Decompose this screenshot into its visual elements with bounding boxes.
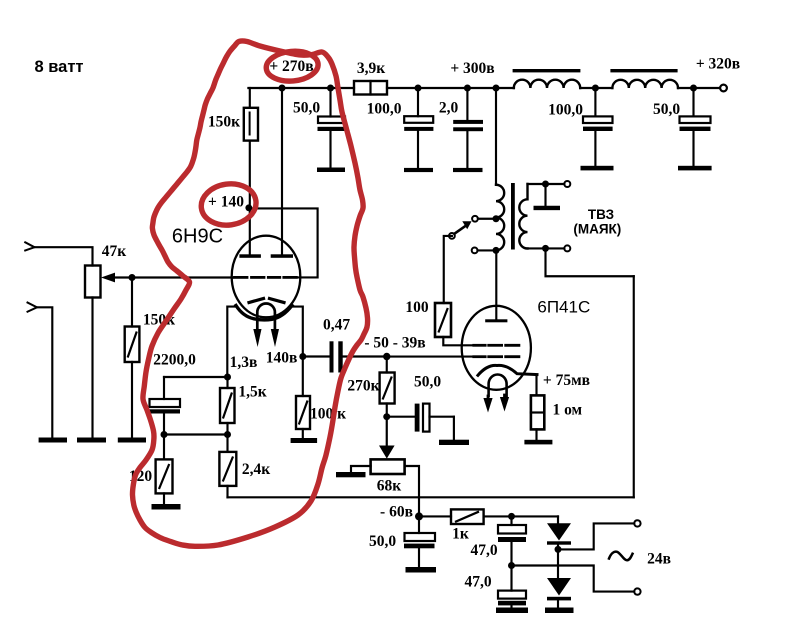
svg-text:1,3в: 1,3в [230,354,258,371]
ground bar C8 [439,440,469,445]
g1 dashes of V2 [474,355,519,358]
resistor R4 150к grid leak [125,278,140,438]
ground bar for C2 [404,168,433,172]
resistor R12 1к [451,509,484,524]
switch common terminal circle [449,233,455,239]
ground bar R7 [152,504,181,510]
wire input2 to ground [37,307,52,437]
wire lower circle to primary bottom [478,249,497,251]
capacitor C7 0,47 [330,341,343,372]
cathode arch of V2 [478,365,537,375]
g2 dashes of V2 [474,344,519,347]
resistor R7 120 [156,435,173,505]
node dot bus at C4 [592,85,599,92]
svg-text:150к: 150к [208,114,240,131]
wire feedback top from secondary [546,248,634,276]
wire cathode1 of V1 down [227,307,236,377]
svg-text:6Н9С: 6Н9С [172,226,223,248]
heater hump of V1 [257,303,275,328]
wire D1 to D2 [557,549,559,578]
svg-text:140в: 140в [266,350,298,367]
svg-text:270к: 270к [347,378,379,395]
wire coupling from +140 node to grid of second triode [249,208,318,277]
capacitor C10 47,0 [498,566,526,608]
capacitor C3 2,0 [453,88,483,168]
terminal circle secondary bottom [564,245,570,251]
capacitor C11 50,0 bias filter [404,516,435,567]
heater hump of V2 [489,375,507,397]
svg-text:8 ватт: 8 ватт [34,58,83,76]
terminal +320в output circle [720,85,727,92]
inductor L2 50,0 choke core [610,69,677,72]
svg-text:0,47: 0,47 [323,317,350,334]
wire feedback right vertical [633,276,635,497]
anode plate of V2 [485,319,507,322]
ground bar pot [77,438,106,443]
svg-text:+ 140: + 140 [208,194,244,211]
svg-text:50,0: 50,0 [653,101,680,118]
svg-text:1,5к: 1,5к [238,384,266,401]
node dot bus at transformer primary [493,85,500,92]
terminal circle AC bottom [634,588,640,594]
terminal circle secondary top [564,181,570,187]
transformer T1 primary lead from bus [495,88,497,185]
ground bar for C3 [453,168,483,172]
wire tap circle to primary [478,218,496,220]
wire between bottom dots [164,433,228,435]
ground bar R13 [524,440,552,445]
wiper arrow to 68к pot [379,417,395,459]
potentiometer 47к wiper arrow [101,273,132,283]
svg-text:+ 320в: + 320в [696,56,740,73]
switch lower tap circle [472,248,478,254]
capacitor C6 2200,0 [150,377,181,435]
svg-text:50,0: 50,0 [293,100,320,117]
svg-text:24в: 24в [647,551,671,568]
ground bar input2 [39,438,67,443]
svg-text:100: 100 [405,299,429,316]
wire 140в node to C7 [303,355,330,357]
node dot bus at anode V8 [279,85,286,92]
wire secondary top to ground [544,184,546,206]
node dot C6 bottom [161,431,168,438]
node dot bus at C3 [464,85,471,92]
cathode dash right of V1 [270,299,285,303]
capacitor C9 47,0 [498,516,526,565]
wire -60в to R12 [419,515,451,517]
wire C9-C10 node to AC terminal bottom [512,566,635,592]
ground bar D2 [545,608,574,614]
node dot bus at C2 [415,85,422,92]
ground bar secondary [534,206,561,210]
svg-text:- 50 - 39в: - 50 - 39в [364,335,425,352]
node dot grid of 6П41С [383,353,390,360]
capacitor C1 50,0 [318,88,346,168]
node dot C9 top [508,513,515,520]
svg-text:+ 270в: + 270в [269,58,313,75]
node dot between C9 C10 [508,562,515,569]
node dot primary bottom [493,247,500,254]
inductor L2 winding [612,80,678,88]
resistor R8 270к [380,357,395,417]
svg-text:ТВЗ: ТВЗ [588,207,614,222]
svg-text:100 к: 100 к [310,406,346,423]
wire R12 to C9 node [484,515,558,517]
inductor L1 winding [514,80,580,88]
svg-text:+ 300в: + 300в [450,60,494,77]
grid dashes of V1 [235,276,297,279]
node dot secondary bottom [542,245,549,252]
potentiometer 47к body [85,266,101,298]
switch lever arrow [454,221,471,234]
svg-text:6П41С: 6П41С [537,297,590,316]
node dot grid1 junction [129,274,136,281]
transformer T1 secondary winding [519,184,527,248]
node dot -60в [415,512,423,520]
wire primary bottom to anode of V2 [495,250,497,319]
node dot D1 bottom [555,546,562,553]
AC sine symbol [609,552,633,561]
heater arrow right of V2 [500,395,509,412]
node dot secondary top [542,181,549,188]
wire anode2 of 6Н9С to bus [281,88,283,255]
wire D1 node to AC terminal top [558,523,634,549]
red annotation main loop [132,41,367,546]
red ellipse around +140 [199,180,259,228]
wire pot bottom to ground [91,298,93,438]
capacitor C8 50,0 [415,404,454,440]
capacitor C4 100,0 [583,88,613,166]
wire grid junction to g1 of V2 [387,356,474,358]
wire feedback bottom long [228,496,634,498]
svg-text:100,0: 100,0 [548,102,583,119]
wire secondary top [528,183,565,185]
anode plate 2 of V1 [271,254,293,257]
wire C7 to grid junction [343,355,387,357]
svg-text:(МАЯК): (МАЯК) [573,222,621,237]
heater arrow left of V1 [253,329,261,347]
diode D1 [547,523,571,549]
node dot primary tap [493,215,500,222]
ground bar for C4 [581,166,614,171]
node dot R5 bottom [224,431,231,438]
ground bar R9 [291,438,318,443]
ground bar 68к left [336,472,366,477]
heater arrow right of V1 [271,329,279,347]
node dot R8 bottom [383,413,390,420]
transformer T1 core [511,183,515,250]
wire anode1 of 6Н9С from +140 node down to plate [249,208,251,255]
node +140 dot [245,204,252,211]
terminal circle AC top [634,520,640,526]
red ellipse around +270в [265,49,319,83]
svg-text:3,9к: 3,9к [357,60,385,77]
cathode dash left of V1 [249,299,264,303]
svg-text:2,0: 2,0 [439,100,459,117]
wire to diode D1 [557,516,559,523]
wire top bus left segment (+270в rail) [248,87,354,89]
resistor R6 2,4к [219,435,236,498]
potentiometer 68к body [371,459,405,474]
ground bar C10 [496,608,528,614]
ground bar for C5 [678,166,712,171]
resistor R5 1,5к [220,377,235,435]
wire cathode of V2 down to R13 [535,375,537,396]
heater arrow left of V2 [483,396,492,413]
ground bar C11 [406,567,437,573]
wire input1 to volume pot [35,247,93,265]
wire bus between chokes [580,87,612,89]
inductor L1 100,0 choke core [513,69,581,72]
capacitor C2 100,0 [404,88,433,168]
capacitor C5 50,0 [680,88,711,166]
svg-text:68к: 68к [377,478,402,495]
tube V2 6П41С envelope [462,306,531,390]
svg-text:2200,0: 2200,0 [153,352,196,369]
cathode smile arc of V1 [236,306,292,320]
transformer T1 primary winding [496,185,504,251]
svg-text:50,0: 50,0 [414,374,441,391]
svg-text:100,0: 100,0 [367,101,402,118]
svg-text:47,0: 47,0 [470,542,497,559]
input terminal 1 chevron [25,242,34,250]
node dot cathode1 1,3в [224,374,231,381]
wire cathode2 of V1 down [292,307,303,357]
svg-text:- 60в: - 60в [380,504,413,521]
anode plate 1 of V1 [239,254,261,257]
node dot cathode follower output 140в [299,353,306,360]
node dot bus at C1 [327,85,334,92]
ground bar for C1 [317,168,345,173]
svg-text:1 ом: 1 ом [552,402,582,419]
tube V1 6Н9С envelope [232,236,301,318]
resistor R 3,9к [354,81,387,95]
wire secondary bottom [528,247,565,249]
svg-text:1к: 1к [452,526,469,543]
wire R8 bottom to C8 [387,416,415,418]
resistor R9 100к [296,357,310,439]
svg-text:47,0: 47,0 [464,574,491,591]
input terminal 2 chevron [28,303,38,312]
diode D2 [547,578,571,608]
wire wiper to grid of V1 [132,276,233,278]
wire 1,3в node to C6 [164,376,228,378]
svg-text:2,4к: 2,4к [242,461,270,478]
resistor R10 100 screen [435,236,474,345]
resistor R1 150к anode load [244,88,258,207]
wire top bus middle segment (+300в rail) [387,87,514,89]
wire 68к left terminal [351,466,371,473]
wire bus right to output terminal [678,87,720,89]
switch upper tap circle [472,216,478,222]
wire 68к right terminal down [405,466,419,516]
svg-text:50,0: 50,0 [369,533,396,550]
ground bar R4 [118,438,146,443]
svg-text:+ 75мв: + 75мв [543,372,590,389]
resistor R13 1 Ом [531,395,544,439]
svg-text:47к: 47к [102,243,127,260]
node dot bus at C5 [690,85,697,92]
